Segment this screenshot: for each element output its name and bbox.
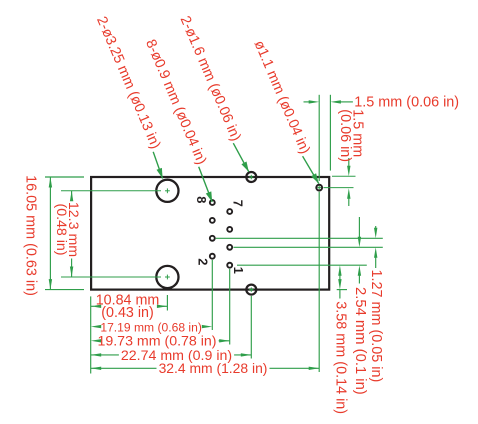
extension tick bottom left	[45, 289, 84, 291]
svg-text:12.3 mm(0.48 in): 12.3 mm(0.48 in)	[53, 202, 81, 257]
extension tick bottom edge right	[337, 289, 347, 291]
center mark mounting hole bottom	[165, 276, 170, 278]
svg-text:1: 1	[231, 267, 246, 274]
pad 2	[210, 254, 215, 259]
svg-text:2: 2	[196, 258, 211, 265]
mounting hole top 3.25mm	[156, 180, 178, 202]
leader arrow to pad 8	[199, 167, 213, 202]
svg-text:ø1.1 mm (ø0.04 in): ø1.1 mm (ø0.04 in)	[251, 38, 313, 156]
pad 4	[210, 236, 215, 241]
dimension 1.5 mm horizontal	[304, 101, 312, 103]
leader arrow to hole 1.1mm	[303, 156, 319, 183]
extension line hole 1.1 up	[318, 95, 320, 181]
extension line pad 4	[216, 237, 383, 239]
leader arrow to mounting hole	[153, 152, 162, 179]
center mark mounting hole top	[165, 190, 170, 192]
svg-text:1.5 mm (0.06 in): 1.5 mm (0.06 in)	[354, 95, 459, 111]
extension line below pad 2	[211, 260, 213, 330]
dimension 22.74 mm	[91, 353, 102, 356]
dimension 10.84 mm	[91, 305, 102, 308]
extension line below pad 1	[229, 269, 231, 345]
dimension 2.54 mm	[358, 217, 360, 240]
mounting hole bottom 3.25mm	[156, 266, 178, 288]
dimension 17.19 mm	[91, 325, 102, 328]
dimension 1.5 mm vertical	[348, 158, 350, 169]
edge hole top 1.6mm	[246, 172, 256, 182]
pad 3	[227, 245, 232, 250]
svg-text:2-ø3.25 mm (ø0.13 in): 2-ø3.25 mm (ø0.13 in)	[93, 14, 163, 151]
center mark hole 1.1mm	[317, 187, 321, 189]
dimension line 16.05 mm	[49, 177, 51, 290]
extension tick top edge right	[332, 175, 356, 177]
svg-text:32.4 mm (1.28 in): 32.4 mm (1.28 in)	[159, 360, 268, 376]
dimension line 12.3 mm	[71, 191, 73, 200]
svg-text:3.58 mm (0.14 in): 3.58 mm (0.14 in)	[332, 301, 348, 414]
svg-text:7: 7	[231, 200, 246, 207]
hole 1.1mm	[316, 185, 322, 191]
center mark edge hole bottom	[249, 289, 253, 291]
extension line below hole 1.1mm	[318, 192, 320, 372]
dimension 32.4 mm	[91, 367, 102, 370]
edge hole bottom 1.6mm	[246, 285, 256, 295]
extension tick top left	[45, 176, 84, 178]
pad 8	[210, 200, 215, 205]
extension line below mounting hole	[166, 295, 168, 311]
extension line left reference	[90, 296, 92, 373]
pad 7	[227, 209, 232, 214]
pad 6	[210, 218, 215, 223]
extension line pad 1	[237, 264, 367, 266]
svg-text:8: 8	[194, 196, 209, 203]
leader arrow to edge hole	[233, 143, 249, 172]
dimension 1.27 mm	[375, 226, 377, 231]
svg-text:17.19 mm (0.68 in): 17.19 mm (0.68 in)	[100, 321, 202, 335]
extension line pad 3	[234, 246, 383, 248]
dimension 19.73 mm	[91, 339, 102, 342]
extension line mounting hole top	[61, 190, 161, 192]
extension line below edge hole	[250, 296, 252, 359]
pad 1	[227, 263, 232, 268]
svg-text:16.05 mm (0.63 in): 16.05 mm (0.63 in)	[22, 175, 38, 296]
svg-text:(0.43 in): (0.43 in)	[101, 305, 153, 321]
extension line mounting hole bottom	[61, 276, 161, 278]
extension line hole 1.1 right	[324, 187, 354, 189]
pad 5	[227, 227, 232, 232]
extension line right edge up	[329, 95, 331, 171]
center mark edge hole top	[249, 176, 253, 178]
svg-text:1.5 mm(0.06 in): 1.5 mm(0.06 in)	[337, 109, 365, 162]
svg-text:2.54 mm (0.1 in): 2.54 mm (0.1 in)	[352, 287, 368, 395]
svg-text:1.27 mm (0.05 in): 1.27 mm (0.05 in)	[368, 270, 384, 383]
board outline	[91, 177, 329, 290]
dimension 3.58 mm	[338, 265, 341, 276]
